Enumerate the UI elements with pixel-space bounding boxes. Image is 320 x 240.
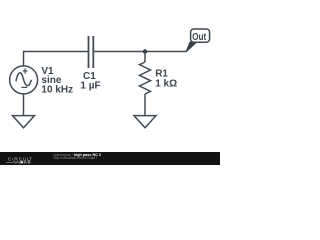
wire from C1 right plate to Out anchor xyxy=(94,51,187,53)
footer logo L badge xyxy=(20,161,23,164)
Out flag box xyxy=(191,29,210,42)
ground (right, below R1) xyxy=(134,116,156,128)
wire junction down to R1 xyxy=(144,52,146,63)
svg-text:10 kHz: 10 kHz xyxy=(41,85,73,96)
label V1 sine 10 kHz xyxy=(41,66,73,96)
node junction dot xyxy=(143,49,147,53)
svg-text:Out: Out xyxy=(192,32,207,43)
Out flag tail xyxy=(186,42,197,52)
svg-text:1 kΩ: 1 kΩ xyxy=(155,78,177,89)
wire V1 bottom lead to ground xyxy=(23,94,25,116)
wire R1 bottom to ground xyxy=(144,94,146,116)
svg-text:AB: AB xyxy=(24,160,31,165)
resistor R1 zigzag xyxy=(140,62,151,94)
capacitor C1 plates xyxy=(89,36,94,68)
footer bar xyxy=(0,152,220,165)
label C1 1 uF xyxy=(80,71,100,91)
label R1 1 kOhm xyxy=(155,69,177,90)
wire V1 top up and right to C1 left plate xyxy=(24,52,89,67)
footer logo resistor zigzag lead xyxy=(6,161,20,163)
svg-text:http://circuitlab.com/c/7bqt47: http://circuitlab.com/c/7bqt47 xyxy=(54,156,98,160)
svg-text:1 µF: 1 µF xyxy=(80,80,100,91)
ground (left, below V1) xyxy=(13,116,35,128)
voltage source V1 xyxy=(10,66,38,94)
